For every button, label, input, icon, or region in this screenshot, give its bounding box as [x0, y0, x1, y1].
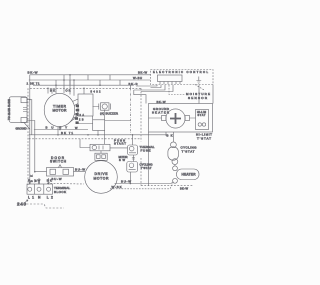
control inner box — [158, 75, 183, 82]
wire row y134.8 — [29, 134, 168, 136]
wire bus 2 — [29, 79, 151, 81]
svg-text:(A) BUZZER: (A) BUZZER — [100, 112, 118, 116]
svg-text:N: N — [38, 196, 41, 200]
svg-text:T'STAT: T'STAT — [197, 137, 211, 141]
ground in control — [196, 77, 201, 84]
svg-text:MOTOR: MOTOR — [53, 109, 68, 113]
junction dots — [29, 74, 133, 184]
svg-text:TO MAIN HARN: TO MAIN HARN — [8, 99, 11, 120]
svg-text:BK-W: BK-W — [138, 71, 147, 75]
wire connector stub down — [24, 122, 30, 129]
svg-text:L2: L2 — [47, 196, 53, 200]
svg-text:1 BK 71: 1 BK 71 — [27, 81, 40, 85]
wire heater box drop left — [147, 132, 149, 186]
svg-text:BK-R: BK-R — [129, 82, 138, 86]
heater feed wires — [161, 182, 174, 184]
switch block — [78, 94, 93, 116]
timer motor — [44, 93, 75, 126]
terminal feeder arrows — [39, 178, 49, 184]
svg-text:BK: BK — [167, 134, 173, 138]
aux switch box — [93, 120, 105, 131]
svg-text:W-BK: W-BK — [112, 185, 122, 189]
connector between — [132, 155, 135, 162]
svg-text:BK-W: BK-W — [28, 71, 38, 75]
svg-text:HEATER: HEATER — [182, 173, 197, 177]
svg-text:BU-W: BU-W — [121, 180, 131, 184]
timer feeders to buses — [48, 75, 74, 96]
cabinet dashed line under door switch — [47, 182, 84, 185]
cabinet dashed line bottom — [26, 204, 64, 208]
wire buzzer to start switch — [103, 131, 105, 145]
node ticks on buses — [56, 75, 120, 85]
svg-text:MOTOR: MOTOR — [94, 177, 110, 181]
svg-text:ELECTRONIC CONTROL: ELECTRONIC CONTROL — [153, 70, 209, 74]
svg-text:T'STAT: T'STAT — [141, 166, 152, 170]
timer bottom stub — [57, 127, 59, 135]
wire row y120.5 — [77, 88, 131, 123]
wire from connector top — [27, 100, 32, 135]
svg-text:W: W — [38, 179, 41, 183]
hi-limit sub box — [196, 110, 209, 130]
svg-text:BK 71: BK 71 — [61, 131, 73, 135]
svg-text:T'STAT: T'STAT — [182, 150, 195, 154]
buzzer — [99, 103, 111, 110]
wire row y129.5 — [34, 129, 88, 131]
wire thermal column feeds — [132, 135, 134, 145]
svg-text:L1: L1 — [28, 196, 34, 200]
dash-dot drop — [130, 88, 132, 135]
svg-text:BU-W: BU-W — [75, 168, 85, 172]
heating element — [149, 109, 196, 128]
cycling thermostat capsule — [168, 142, 179, 165]
heater box — [149, 104, 213, 133]
svg-text:3A: 3A — [80, 114, 85, 117]
motor output wires — [115, 183, 161, 185]
svg-text:GROUND: GROUND — [16, 128, 27, 131]
svg-text:BU-W: BU-W — [52, 177, 62, 181]
svg-text:BU: BU — [46, 126, 54, 130]
svg-text:SWITCH: SWITCH — [50, 160, 67, 164]
drive motor — [85, 151, 118, 193]
svg-text:SW: SW — [119, 158, 126, 162]
wire bus 3 — [33, 84, 134, 86]
svg-text:START: START — [114, 142, 126, 146]
svg-text:W-BU: W-BU — [133, 76, 142, 80]
door switch wires — [35, 171, 85, 173]
wire L1 vertical feeder — [29, 80, 31, 184]
heater capsule — [173, 165, 199, 184]
svg-text:FUSE: FUSE — [141, 148, 151, 152]
wires to moisture sensor (dashed) — [169, 85, 205, 95]
timer contacts wires to switch block — [70, 99, 78, 122]
svg-text:BLOCK: BLOCK — [54, 190, 66, 194]
terminal block — [27, 184, 53, 194]
start switch — [90, 144, 110, 151]
connector P1 — [9, 97, 27, 123]
timer contact squares — [75, 105, 79, 124]
console dashed enclosure — [28, 88, 193, 185]
svg-text:STAT: STAT — [198, 113, 206, 117]
thermal fuse — [128, 145, 138, 155]
svg-text:SENSOR: SENSOR — [188, 96, 208, 100]
svg-text:DRIVE: DRIVE — [95, 172, 109, 176]
wire from connector bottom — [27, 121, 35, 172]
wire element to cycling stat — [172, 132, 174, 142]
wire buzzer drop — [103, 110, 105, 120]
svg-text:HEATER: HEATER — [152, 110, 169, 114]
svg-text:BK-W: BK-W — [180, 187, 189, 191]
svg-text:OR: OR — [66, 89, 71, 93]
wire bus L1 top — [30, 75, 151, 80]
svg-text:2B: 2B — [79, 118, 84, 121]
svg-text:5 4 3 2: 5 4 3 2 — [91, 89, 102, 93]
electronic control box (dashed) — [151, 70, 214, 85]
cycling tstat small — [127, 162, 138, 173]
svg-text:BK: BK — [50, 89, 55, 93]
wires control box to heater box — [134, 85, 213, 104]
